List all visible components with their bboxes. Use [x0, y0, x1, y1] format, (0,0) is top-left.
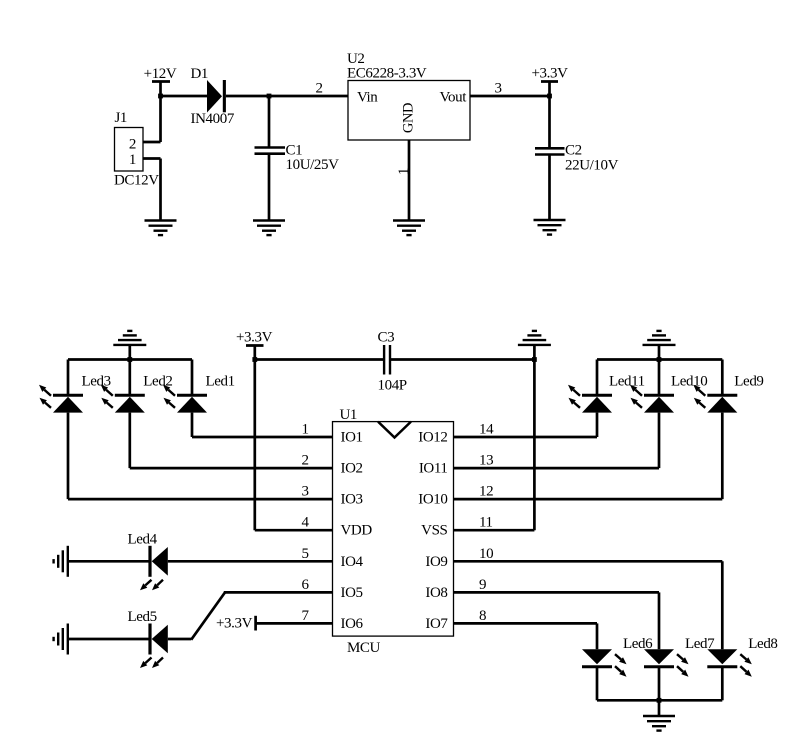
- svg-text:+3.3V: +3.3V: [216, 616, 253, 632]
- wire Led4 to IO4 pin 5: [168, 560, 333, 563]
- ground (inverted) right cluster: [643, 331, 676, 360]
- svg-text:IO8: IO8: [425, 585, 447, 601]
- LED Led3: [39, 374, 111, 413]
- svg-text:2: 2: [315, 81, 322, 97]
- svg-text:IO10: IO10: [418, 492, 447, 508]
- power +12V: [144, 66, 177, 96]
- svg-text:D1: D1: [191, 66, 209, 82]
- svg-text:U1: U1: [340, 407, 358, 423]
- wire Led2 cathode stem: [128, 360, 131, 396]
- wire Led2 anode to IO2: [128, 413, 131, 469]
- wire left LED cluster top rail: [68, 358, 192, 361]
- svg-text:Led5: Led5: [128, 609, 157, 625]
- svg-text:22U/10V: 22U/10V: [565, 158, 619, 174]
- ground (rotated) for Led5: [54, 624, 68, 655]
- wire Led7 cathode down: [658, 667, 661, 701]
- svg-text:C2: C2: [565, 143, 582, 159]
- capacitor C2: [535, 143, 619, 174]
- wire +3.3V to C2: [548, 96, 551, 148]
- wire IO8 pin 9 to Led7: [454, 591, 660, 594]
- svg-text:+3.3V: +3.3V: [531, 66, 568, 82]
- svg-text:3: 3: [494, 81, 501, 97]
- svg-text:8: 8: [479, 608, 486, 624]
- wire bottom cathode rail: [597, 699, 722, 702]
- wire VDD pin 4: [255, 529, 333, 532]
- svg-text:Led3: Led3: [82, 374, 111, 390]
- svg-text:10U/25V: 10U/25V: [286, 157, 340, 173]
- svg-text:DC12V: DC12V: [114, 173, 159, 189]
- node junction C3 / VSS: [532, 357, 537, 362]
- wire pin 7: [256, 622, 333, 625]
- svg-text:6: 6: [301, 577, 309, 593]
- power +3.3V (MCU VDD): [236, 330, 273, 360]
- wire Led3 anode to IO3: [67, 413, 70, 500]
- connector J1: [114, 110, 159, 189]
- svg-text:5: 5: [301, 546, 308, 562]
- node junction +12V rail: [158, 94, 163, 99]
- svg-text:10: 10: [479, 546, 493, 562]
- svg-text:Vin: Vin: [357, 90, 378, 106]
- svg-text:IO9: IO9: [425, 554, 447, 570]
- power +3.3V (top right): [531, 66, 568, 97]
- svg-text:1: 1: [129, 152, 136, 168]
- wire VSS pin 11: [454, 529, 535, 532]
- svg-text:IO5: IO5: [341, 585, 363, 601]
- LED Led11: [568, 374, 645, 413]
- wire Led8 cathode down: [721, 667, 724, 701]
- svg-text:2: 2: [301, 453, 308, 469]
- svg-text:3: 3: [301, 484, 308, 500]
- wire Led9 anode to pin: [721, 413, 724, 500]
- svg-text:IO12: IO12: [418, 430, 447, 446]
- node junction C1 tap: [267, 94, 272, 99]
- wire J1 pin1 to ground: [143, 157, 161, 160]
- svg-text:IN4007: IN4007: [191, 111, 235, 127]
- wire C3 right to VSS gnd: [390, 358, 534, 361]
- wire main rail left of D1: [161, 95, 208, 98]
- svg-text:4: 4: [301, 515, 309, 531]
- svg-text:104P: 104P: [378, 378, 407, 394]
- ic U1 MCU: [333, 407, 454, 656]
- svg-text:2: 2: [129, 137, 136, 153]
- svg-text:13: 13: [479, 453, 493, 469]
- svg-text:IO1: IO1: [341, 430, 363, 446]
- ground under J1: [145, 221, 177, 236]
- ground bottom right: [643, 716, 675, 731]
- svg-text:Led2: Led2: [143, 374, 172, 390]
- node junction C2 tap: [547, 94, 552, 99]
- LED Led2: [101, 374, 173, 413]
- ground under C2: [534, 220, 566, 235]
- wire J1 pin2 to +12V node: [143, 141, 161, 144]
- svg-text:VSS: VSS: [421, 523, 447, 539]
- svg-text:Led4: Led4: [128, 532, 158, 548]
- node junction left cluster: [127, 357, 132, 362]
- diode D1: [191, 66, 235, 127]
- svg-text:+3.3V: +3.3V: [236, 330, 273, 346]
- svg-text:EC6228-3.3V: EC6228-3.3V: [347, 66, 427, 82]
- wire Led3 cathode stem: [67, 360, 70, 396]
- wire Led10 anode to pin: [658, 413, 661, 469]
- ground under C1: [253, 221, 285, 236]
- svg-text:7: 7: [301, 608, 309, 624]
- wire C1 bottom to ground: [268, 154, 271, 221]
- svg-text:IO11: IO11: [419, 461, 448, 477]
- svg-text:12: 12: [479, 484, 493, 500]
- wire U2 Vout (pin 3): [470, 95, 550, 98]
- node junction bottom rail: [657, 698, 662, 703]
- regulator U2 EC6228-3.3V: [347, 51, 470, 140]
- wire VSS vertical: [533, 360, 536, 531]
- svg-text:1: 1: [301, 422, 308, 438]
- svg-text:1: 1: [396, 168, 412, 175]
- LED Led8: [707, 636, 777, 677]
- svg-text:9: 9: [479, 577, 486, 593]
- svg-text:IO2: IO2: [341, 461, 363, 477]
- svg-text:IO4: IO4: [341, 554, 364, 570]
- svg-text:Led8: Led8: [748, 636, 777, 652]
- wire +3.3V stem down to VDD: [253, 360, 256, 531]
- wire D1 cathode to U2 Vin: [226, 95, 348, 98]
- LED Led10: [630, 374, 707, 413]
- wire ground to Led4: [68, 560, 149, 563]
- svg-text:Led1: Led1: [206, 374, 235, 390]
- svg-text:IO7: IO7: [425, 616, 448, 632]
- svg-text:+12V: +12V: [144, 66, 177, 82]
- svg-text:GND: GND: [401, 103, 417, 133]
- svg-text:MCU: MCU: [347, 640, 381, 656]
- svg-text:IO3: IO3: [341, 492, 363, 508]
- node junction right cluster: [657, 357, 662, 362]
- svg-text:Led10: Led10: [671, 374, 707, 390]
- svg-text:Vout: Vout: [440, 90, 468, 106]
- svg-text:14: 14: [479, 422, 494, 438]
- ground (inverted) left cluster: [113, 331, 146, 360]
- wire C2 bottom to ground: [548, 155, 551, 221]
- wire ground to Led5: [68, 638, 149, 641]
- svg-text:C3: C3: [378, 330, 395, 346]
- wire Led11 cathode stem: [596, 360, 599, 396]
- wire Led11 anode to pin: [596, 413, 599, 437]
- LED Led6: [582, 636, 653, 677]
- wire rail to ground: [658, 700, 661, 716]
- LED Led7: [644, 636, 715, 677]
- svg-text:Led9: Led9: [734, 374, 763, 390]
- wire right LED cluster top rail: [597, 358, 722, 361]
- LED Led4: [128, 532, 168, 591]
- svg-text:VDD: VDD: [341, 523, 373, 539]
- LED Led5: [128, 609, 168, 668]
- ground (inverted) above VSS rail: [518, 331, 551, 360]
- LED Led1: [163, 374, 235, 413]
- wire IO9 pin 10 to Led8: [454, 560, 723, 563]
- wire C1 top: [268, 96, 271, 148]
- node junction +3.3V / C3: [252, 357, 257, 362]
- power +3.3V terminal (IO6 pin 7): [216, 616, 256, 632]
- svg-text:IO6: IO6: [341, 616, 364, 632]
- wire Led9 cathode stem: [721, 360, 724, 396]
- wire IO7 pin 8 to Led6: [454, 622, 598, 625]
- svg-text:11: 11: [479, 515, 493, 531]
- LED Led9: [693, 374, 763, 413]
- capacitor C1: [255, 143, 340, 174]
- capacitor C3: [378, 330, 407, 394]
- svg-text:Led11: Led11: [609, 374, 645, 390]
- wire C3 left to +3.3V: [255, 358, 384, 361]
- wire Led6 cathode down: [596, 667, 599, 701]
- wire Led5 diagonal to IO5 pin 6: [168, 638, 191, 641]
- wire Led1 cathode stem: [191, 360, 194, 396]
- svg-text:J1: J1: [115, 110, 128, 126]
- ground (rotated) for Led4: [54, 546, 68, 577]
- wire Led10 cathode stem: [658, 360, 661, 396]
- wire Led1 anode to IO1: [191, 413, 194, 437]
- ground under U2: [393, 221, 425, 236]
- wire U2 GND pin: [408, 140, 411, 221]
